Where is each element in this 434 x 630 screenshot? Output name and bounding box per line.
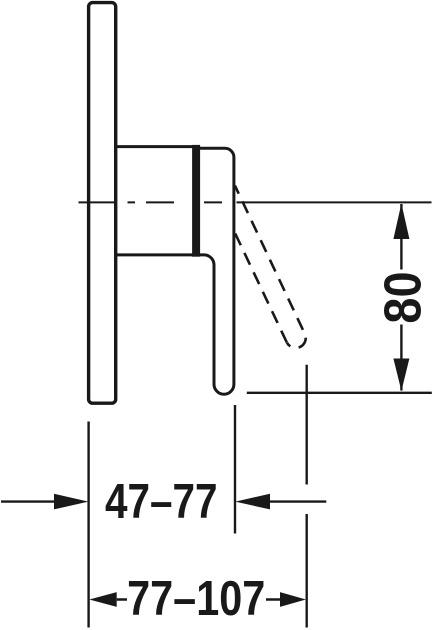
arrowhead 47-77 right: [235, 494, 270, 510]
arrowhead 80 bottom: [393, 359, 409, 392]
dashed lever (open position), upper edge and end cap: [235, 186, 306, 348]
arrowhead 47-77 left: [54, 494, 88, 510]
arrowhead 77-107 right: [280, 592, 306, 607]
dimension 47-77 leaders: [1, 500, 326, 502]
arrowhead 80 top: [393, 204, 409, 240]
extension line bottom of handle (for 80): [247, 392, 432, 394]
body bottom + handle grip outline: [116, 148, 234, 394]
body top line: [116, 145, 194, 148]
dimension line 80: [400, 204, 402, 391]
svg-text:80: 80: [374, 271, 432, 323]
arrowhead 77-107 left: [89, 592, 116, 607]
extension line from handle front: [234, 405, 236, 534]
svg-text:77–107: 77–107: [127, 571, 265, 626]
dimension 77-107 leaders: [117, 598, 281, 600]
body/handle joint thick bar: [192, 145, 200, 257]
centerline (dash-dot): [79, 201, 432, 203]
extension line from plate: [87, 422, 89, 628]
dashed lever lower edge: [235, 234, 287, 343]
extension line from lever tip: [306, 365, 308, 628]
wall plate: [89, 3, 116, 404]
svg-text:47–77: 47–77: [105, 473, 217, 529]
